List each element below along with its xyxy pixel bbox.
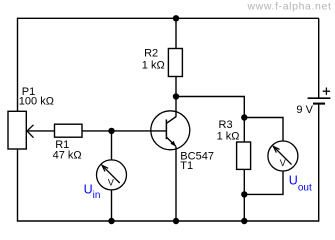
wire bottom rail — [17, 220, 319, 222]
wire Uout bottom — [244, 171, 283, 195]
junction node emitter bottom rail — [173, 218, 179, 224]
plus sign — [323, 90, 330, 92]
resistor R3 — [237, 142, 251, 169]
resistor R2 — [168, 49, 182, 77]
battery 9V — [308, 88, 331, 104]
wire R2 top — [175, 18, 177, 48]
wire Uin top — [111, 131, 113, 160]
wire R3 to bottom rail — [243, 194, 245, 221]
wire Uin bottom — [111, 190, 113, 221]
svg-text:V: V — [280, 158, 286, 168]
svg-text:www.f-alpha.net: www.f-alpha.net — [246, 0, 331, 12]
svg-text:T1: T1 — [180, 160, 193, 172]
wire top rail — [18, 17, 319, 19]
wire P1 wiper to R1 — [28, 130, 54, 132]
junction node R3 top — [241, 114, 247, 120]
svg-text:R3: R3 — [219, 119, 233, 131]
svg-text:R2: R2 — [144, 48, 158, 60]
potentiometer P1 — [8, 111, 34, 149]
resistor R1 — [55, 124, 83, 137]
wire R3 lower — [243, 169, 245, 194]
svg-text:V: V — [108, 177, 114, 187]
wire emitter — [175, 147, 177, 222]
svg-text:100 kΩ: 100 kΩ — [19, 96, 54, 108]
wire right rail upper — [318, 18, 320, 97]
junction node R3 bottom rail — [241, 218, 247, 224]
wire right rail lower — [318, 104, 320, 221]
junction node R3 bottom — [241, 191, 247, 197]
junction node Uin bottom rail — [108, 218, 114, 224]
wire base — [112, 130, 167, 132]
wire node B to R3 top — [176, 97, 244, 118]
wire R1 to node A — [82, 130, 112, 132]
wire R3 upper — [243, 118, 245, 143]
wire R2 bottom — [175, 77, 177, 97]
svg-text:9 V: 9 V — [296, 104, 313, 116]
wire left rail lower — [17, 149, 19, 221]
voltmeter Uout — [268, 141, 298, 171]
junction node base (R1-Uin) — [108, 128, 114, 134]
svg-text:1 kΩ: 1 kΩ — [142, 59, 165, 71]
wire left rail upper — [17, 18, 19, 112]
junction node top (R2-supply) — [173, 15, 179, 21]
transistor T1 — [151, 111, 190, 150]
voltmeter Uin — [97, 160, 127, 190]
svg-text:1 kΩ: 1 kΩ — [217, 130, 240, 142]
wire Uout top — [244, 118, 283, 142]
svg-text:47 kΩ: 47 kΩ — [53, 149, 82, 161]
junction node collector-R2 — [173, 93, 179, 99]
wire collector — [175, 97, 177, 117]
